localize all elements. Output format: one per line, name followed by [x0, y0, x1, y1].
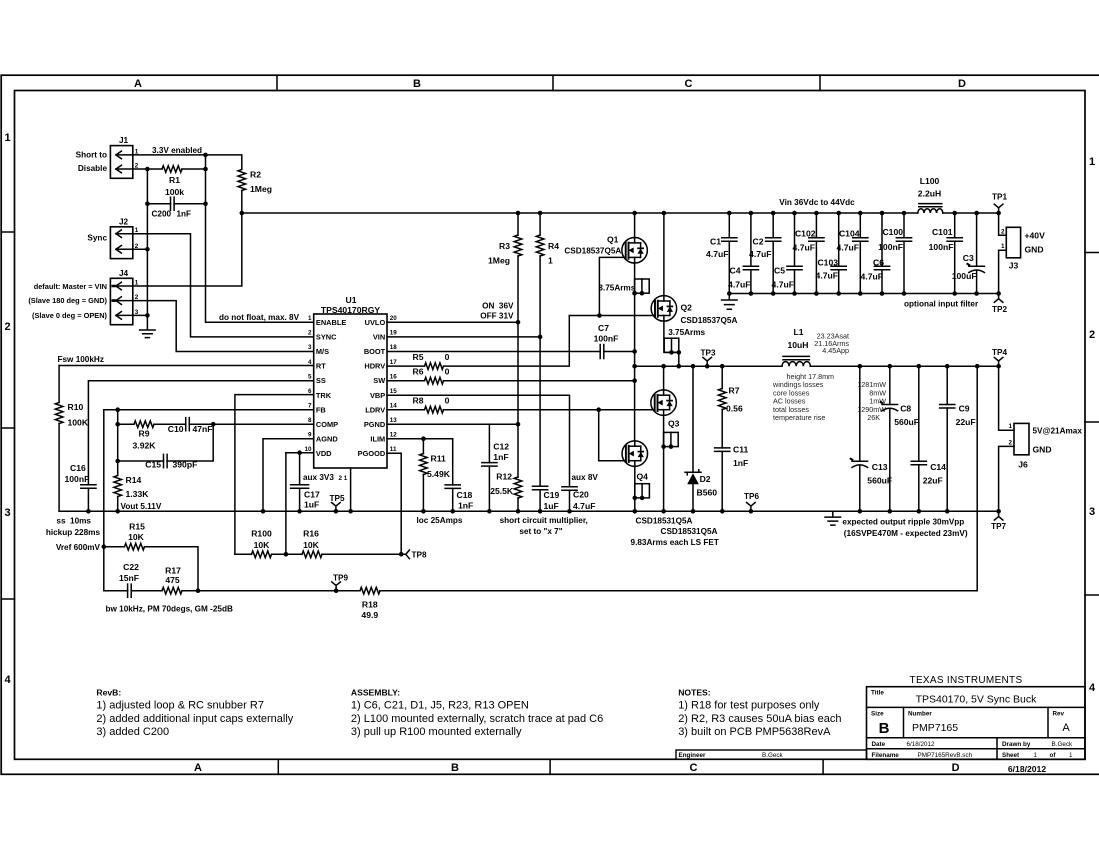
svg-text:Number: Number [908, 710, 932, 717]
svg-text:4.7uF: 4.7uF [749, 249, 771, 259]
svg-text:0: 0 [445, 395, 450, 405]
svg-text:Date: Date [872, 741, 886, 748]
svg-text:optional input filter: optional input filter [904, 300, 979, 309]
svg-text:C200: C200 [152, 210, 172, 219]
svg-text:0.56: 0.56 [726, 404, 743, 414]
svg-text:Vout 5.11V: Vout 5.11V [121, 502, 162, 511]
wire Q1 gate drop [599, 257, 625, 315]
svg-text:C7: C7 [598, 323, 609, 333]
wire R9 left lead [118, 423, 134, 425]
svg-text:TP7: TP7 [991, 522, 1006, 531]
svg-text:4: 4 [4, 674, 11, 686]
svg-text:1: 1 [1001, 243, 1005, 250]
svg-text:C20: C20 [573, 490, 589, 500]
svg-text:2) L100 mounted externally, sc: 2) L100 mounted externally, scratch trac… [351, 713, 603, 725]
svg-text:1: 1 [1069, 752, 1073, 759]
svg-text:ILIM: ILIM [370, 434, 385, 443]
wire C200 right lead [174, 203, 205, 205]
svg-text:10K: 10K [303, 540, 320, 550]
wire R4 top [539, 213, 541, 235]
svg-text:Q4: Q4 [637, 472, 649, 482]
svg-text:3.75Arms: 3.75Arms [668, 328, 705, 337]
capacitor C13 [859, 366, 861, 461]
wire TP9 to R18 [336, 590, 360, 592]
svg-text:C101: C101 [932, 227, 953, 237]
svg-text:1Meg: 1Meg [488, 256, 510, 266]
svg-text:19: 19 [390, 330, 398, 337]
wire RT line [59, 365, 314, 367]
svg-text:C17: C17 [304, 490, 320, 500]
svg-text:9: 9 [308, 432, 312, 439]
test point TP9 [332, 582, 341, 591]
wire J3 pin2 stub [999, 213, 1007, 235]
wire FB line [104, 409, 314, 411]
wire R18 to output riser [380, 366, 977, 591]
svg-text:GND: GND [1025, 245, 1044, 255]
wire R2 bottom to Vin node [241, 191, 243, 214]
capacitor C3 [976, 213, 978, 266]
svg-text:560uF: 560uF [894, 417, 919, 427]
test point TP5 [332, 503, 341, 512]
svg-text:2: 2 [1008, 439, 1012, 446]
capacitor C8 [889, 366, 891, 404]
wire VDD line [286, 452, 314, 454]
svg-text:R100: R100 [251, 529, 272, 539]
output row dots [661, 364, 666, 369]
svg-text:Q2: Q2 [681, 303, 693, 313]
wire R11 top [422, 439, 424, 454]
wire C17 bottom [299, 488, 301, 511]
zone dividers top strip [276, 75, 278, 90]
junction dots lower-mid [102, 544, 107, 549]
svg-text:J3: J3 [1009, 261, 1019, 271]
svg-text:4.45App: 4.45App [822, 346, 849, 355]
capacitor C104 [859, 213, 861, 238]
svg-text:C5: C5 [774, 265, 785, 275]
wire C12 column bottom [488, 466, 490, 511]
wire VBP line [387, 395, 570, 487]
svg-text:26K: 26K [867, 413, 880, 422]
svg-text:Short to: Short to [76, 151, 107, 160]
svg-text:3) built on PCB PMP5638RevA: 3) built on PCB PMP5638RevA [678, 726, 831, 738]
svg-text:2) R2, R3 causes 50uA bias eac: 2) R2, R3 causes 50uA bias each [678, 713, 841, 725]
svg-text:47nF: 47nF [193, 424, 213, 434]
svg-text:NOTES:: NOTES: [678, 688, 711, 698]
svg-text:0: 0 [445, 352, 450, 362]
capacitor C14 [918, 366, 920, 461]
svg-text:11: 11 [390, 446, 397, 453]
svg-text:1nF: 1nF [177, 210, 192, 219]
svg-text:TRK: TRK [316, 391, 332, 400]
svg-text:1nF: 1nF [493, 452, 508, 462]
wire R14 bottom [117, 497, 119, 512]
resistor R2 [238, 170, 246, 191]
connector J1 [110, 146, 132, 179]
svg-text:560uF: 560uF [867, 475, 892, 485]
svg-text:(Slave 0 deg = OPEN): (Slave 0 deg = OPEN) [32, 311, 107, 320]
svg-text:C3: C3 [963, 253, 974, 263]
wire pin21 stub [350, 468, 352, 511]
svg-text:RT: RT [316, 362, 326, 371]
svg-text:20: 20 [390, 315, 398, 322]
ground below J4 [140, 315, 156, 337]
svg-text:TP8: TP8 [412, 550, 427, 559]
wire R12 bottom [517, 498, 519, 511]
wire C200 left lead [147, 203, 170, 205]
svg-text:Rev: Rev [1053, 710, 1065, 717]
wire BOOT line [387, 351, 600, 353]
svg-text:ENABLE: ENABLE [316, 318, 346, 327]
svg-text:2: 2 [4, 321, 10, 333]
svg-text:15: 15 [390, 388, 398, 395]
svg-text:6/18/2012: 6/18/2012 [1008, 764, 1046, 774]
svg-text:C12: C12 [493, 442, 509, 452]
svg-text:VDD: VDD [316, 449, 332, 458]
wire D2 anode wire [692, 484, 694, 511]
wire J1.2 to R1 left [133, 168, 162, 170]
wire J2.2 stub [133, 248, 148, 250]
svg-text:25.5K: 25.5K [490, 486, 514, 496]
wire J4.3 stub [133, 314, 148, 316]
wire LDRV line left [387, 409, 425, 411]
svg-text:5V@21Amax: 5V@21Amax [1033, 427, 1083, 436]
capacitor C6 [881, 213, 883, 266]
svg-text:TPS40170RGY: TPS40170RGY [321, 305, 381, 315]
svg-text:COMP: COMP [316, 420, 338, 429]
resistor R10 [55, 403, 63, 424]
svg-text:expected output ripple 30mVpp: expected output ripple 30mVpp [842, 517, 964, 526]
ground symbol input bank [722, 294, 738, 310]
wire R10 bottom [58, 424, 60, 512]
inductor L1 [782, 362, 810, 367]
svg-text:R11: R11 [431, 454, 447, 464]
svg-text:2: 2 [308, 330, 312, 337]
capacitor C5 [794, 213, 796, 266]
wire C20 bottom [569, 490, 571, 511]
svg-text:hickup 228ms: hickup 228ms [46, 528, 101, 537]
svg-text:Sync: Sync [87, 234, 107, 243]
wire Q1 drain [634, 213, 636, 238]
svg-text:1: 1 [4, 132, 10, 144]
svg-text:16: 16 [390, 373, 398, 380]
wire R1 right to node [182, 168, 206, 170]
svg-text:(Slave 180 deg = GND): (Slave 180 deg = GND) [28, 296, 107, 305]
wire Vin rail [242, 212, 918, 214]
svg-text:C2: C2 [753, 236, 764, 246]
svg-text:4.7uF: 4.7uF [793, 243, 815, 253]
svg-text:Sheet: Sheet [1002, 752, 1020, 759]
capacitor C1 [728, 213, 730, 238]
capacitor C11 [715, 448, 730, 452]
svg-text:HDRV: HDRV [364, 362, 385, 371]
svg-text:0: 0 [445, 367, 450, 377]
connector J4 [110, 278, 132, 324]
svg-text:of: of [1050, 752, 1057, 759]
op-amp U1 TPS40170RGY body [314, 314, 387, 468]
svg-text:bw 10kHz, PM 70degs, GM -25dB: bw 10kHz, PM 70degs, GM -25dB [106, 605, 233, 614]
wire Q4 source [634, 466, 636, 511]
svg-text:13: 13 [390, 417, 398, 424]
svg-text:475: 475 [165, 575, 180, 585]
svg-text:4: 4 [1089, 682, 1096, 694]
svg-text:1nF: 1nF [733, 458, 748, 468]
svg-text:PMP7165RevB.sch: PMP7165RevB.sch [918, 752, 973, 759]
rail junction dots [86, 509, 91, 514]
wire SS line [88, 381, 313, 485]
svg-text:1) R18 for test purposes only: 1) R18 for test purposes only [678, 700, 820, 712]
svg-text:1: 1 [1008, 423, 1012, 430]
svg-text:3) added C200: 3) added C200 [96, 726, 169, 738]
wire C11 bottom [721, 451, 723, 511]
svg-text:C104: C104 [839, 229, 860, 239]
svg-text:PGOOD: PGOOD [358, 449, 386, 458]
capacitor C7 [600, 345, 604, 359]
svg-text:10uH: 10uH [787, 340, 808, 350]
wire C16 bottom [87, 488, 89, 511]
svg-text:J2: J2 [119, 217, 129, 226]
transistor Q4 [622, 441, 648, 467]
svg-text:SYNC: SYNC [316, 332, 337, 341]
svg-text:Disable: Disable [78, 164, 108, 173]
wire R3 top [517, 213, 519, 235]
svg-text:TP5: TP5 [329, 494, 344, 503]
svg-text:CSD18531Q5A: CSD18531Q5A [636, 516, 693, 525]
svg-text:3: 3 [308, 344, 312, 351]
svg-text:100k: 100k [165, 187, 184, 197]
svg-text:B.Geck: B.Geck [1052, 741, 1073, 748]
svg-text:AGND: AGND [316, 434, 338, 443]
wire PGND line [387, 423, 518, 425]
wire main ground rail [59, 510, 999, 512]
svg-text:TP2: TP2 [992, 305, 1007, 314]
wire J4.2 to M/S [133, 301, 314, 352]
svg-text:loc 25Amps: loc 25Amps [417, 516, 463, 525]
svg-text:4.7uF: 4.7uF [728, 279, 750, 289]
svg-text:TP1: TP1 [992, 193, 1007, 202]
svg-text:Vin 36Vdc to 44Vdc: Vin 36Vdc to 44Vdc [779, 198, 855, 207]
wire HDRV to riser [444, 316, 656, 367]
wire ILIM line [387, 438, 453, 440]
svg-text:Drawn by: Drawn by [1002, 741, 1031, 748]
wire Q3 drain [663, 366, 665, 390]
svg-text:R14: R14 [126, 475, 142, 485]
wire TRK row left [235, 553, 252, 555]
svg-text:100K: 100K [68, 417, 89, 427]
wire C15 left lead [118, 460, 164, 462]
svg-text:B: B [879, 720, 890, 737]
svg-text:D: D [958, 78, 966, 90]
wire R7 top [721, 366, 723, 388]
wire PGOOD line [387, 453, 401, 554]
wire C19 bottom [539, 490, 541, 512]
connector J2 [110, 227, 132, 259]
resistor R18 [360, 587, 380, 594]
svg-text:1.33K: 1.33K [126, 489, 150, 499]
svg-text:C: C [690, 762, 698, 774]
svg-text:15nF: 15nF [119, 573, 139, 583]
svg-text:C1: C1 [710, 236, 721, 246]
svg-text:R9: R9 [139, 429, 150, 439]
svg-text:CSD18537Q5A: CSD18537Q5A [564, 246, 621, 255]
wire J1.1 to R2 top node [133, 155, 242, 169]
svg-text:C16: C16 [70, 463, 86, 473]
svg-text:RevB:: RevB: [96, 688, 121, 698]
capacitor C10 [186, 418, 190, 431]
svg-text:FB: FB [316, 405, 326, 414]
svg-text:1: 1 [1034, 752, 1038, 759]
wire C18 bottom [452, 488, 454, 511]
wire SW pin line left [387, 380, 425, 382]
resistor R14 [114, 476, 122, 497]
svg-text:PGND: PGND [364, 420, 386, 429]
svg-text:Q3: Q3 [668, 419, 680, 429]
test point TP4 [994, 357, 1003, 366]
svg-text:C9: C9 [959, 404, 970, 414]
svg-text:C8: C8 [900, 404, 911, 414]
wire C15 right lead [167, 424, 213, 461]
connector J3 [1006, 227, 1020, 257]
capacitor C101 [954, 213, 956, 238]
wire R4 bottom [539, 256, 541, 337]
wire C18 top [452, 439, 454, 485]
wire Vref drop [104, 547, 128, 591]
svg-text:R10: R10 [68, 402, 84, 412]
svg-text:4.7uF: 4.7uF [706, 249, 728, 259]
wire R16 right [322, 553, 401, 555]
svg-text:R8: R8 [413, 395, 424, 405]
input bottom rail dots [727, 291, 732, 296]
svg-text:C10: C10 [168, 424, 184, 434]
capacitor C9 [946, 366, 948, 404]
svg-text:C100: C100 [882, 227, 903, 237]
svg-text:R2: R2 [250, 170, 261, 180]
svg-text:+40V: +40V [1025, 231, 1046, 241]
wire comp net vertical x=117.7 [117, 410, 119, 475]
svg-text:C102: C102 [795, 229, 816, 239]
test point TP6 [747, 503, 756, 512]
wire C12 column top [488, 424, 490, 462]
wire FB drop to Vref [103, 410, 105, 547]
wire J6 pin2 stub [999, 446, 1014, 511]
svg-text:10K: 10K [128, 532, 145, 542]
inductor L100 [918, 209, 943, 213]
svg-text:1: 1 [308, 315, 312, 322]
svg-text:Filename: Filename [872, 752, 900, 759]
svg-text:B: B [413, 78, 421, 90]
connector J6 [1014, 423, 1029, 454]
wire R3 bottom [517, 256, 519, 322]
wire VDD riser [285, 453, 287, 555]
junction dots U1 left [115, 407, 120, 412]
capacitor C102 [815, 213, 817, 238]
svg-text:temperature rise: temperature rise [773, 413, 825, 422]
svg-text:1nF: 1nF [458, 501, 473, 511]
svg-text:A: A [134, 78, 142, 90]
svg-text:1) adjusted loop & RC snubber: 1) adjusted loop & RC snubber R7 [96, 700, 264, 712]
wire R17 right [182, 590, 336, 592]
svg-text:100uF: 100uF [952, 271, 977, 281]
svg-text:1uF: 1uF [304, 500, 319, 510]
svg-text:D: D [952, 762, 960, 774]
svg-text:R16: R16 [303, 529, 319, 539]
svg-text:Fsw 100kHz: Fsw 100kHz [58, 355, 104, 364]
sheet inner border [15, 91, 1086, 760]
wire Q1 source [634, 263, 636, 441]
wire J4.1 to Vin node [133, 213, 242, 286]
resistor R1 [162, 166, 182, 173]
svg-text:4.7uF: 4.7uF [861, 272, 883, 282]
wire C10 right to COMP [189, 423, 313, 425]
output rail dots [858, 509, 863, 514]
wire C22 to R17 [131, 590, 162, 592]
svg-text:3.75Arms: 3.75Arms [598, 284, 635, 293]
svg-text:Q1: Q1 [607, 235, 619, 245]
junction dots U1 right [516, 320, 521, 325]
svg-text:VBP: VBP [370, 391, 385, 400]
svg-text:B560: B560 [697, 488, 718, 498]
svg-text:L100: L100 [920, 176, 940, 186]
svg-text:OFF 31V: OFF 31V [480, 312, 514, 321]
wire R15 right [145, 547, 199, 591]
junction dots top-left [203, 153, 208, 158]
svg-text:2 1: 2 1 [339, 475, 348, 482]
svg-text:49.9: 49.9 [361, 610, 378, 620]
wire Q2 source [664, 321, 679, 352]
svg-text:CSD18531Q5A: CSD18531Q5A [661, 527, 718, 536]
wire J2.1 to SYNC [133, 234, 314, 337]
Q2 package pad [664, 338, 679, 352]
wire AGND line [263, 439, 314, 512]
svg-text:1uF: 1uF [544, 501, 559, 511]
svg-text:R7: R7 [729, 386, 740, 396]
svg-text:9.83Arms each LS FET: 9.83Arms each LS FET [631, 538, 719, 547]
wire LDRV line right [444, 409, 655, 411]
svg-text:J4: J4 [119, 269, 129, 278]
svg-text:12: 12 [390, 432, 398, 439]
wire Vin rail after L100 [943, 212, 999, 214]
wire SW pin line right [444, 380, 635, 382]
wire C19 column [539, 337, 541, 486]
svg-text:Size: Size [871, 710, 884, 717]
svg-text:C18: C18 [457, 490, 473, 500]
test point TP1 [994, 204, 1003, 213]
resistor R16 [302, 551, 322, 558]
svg-text:C22: C22 [123, 562, 139, 572]
wire J6 pin1 stub [999, 366, 1014, 430]
engineer box [676, 750, 867, 759]
Q4 package pad [635, 484, 650, 498]
svg-text:UVLO: UVLO [365, 318, 386, 327]
wire UVLO-R12 vertical [517, 322, 519, 477]
svg-text:SS: SS [316, 376, 326, 385]
test point TP3 [703, 357, 712, 366]
wire C17 top [299, 453, 301, 485]
zone dividers bottom strip [277, 759, 279, 774]
svg-text:short circuit multiplier,: short circuit multiplier, [500, 516, 588, 525]
svg-text:R6: R6 [413, 367, 424, 377]
SW spine dots [632, 291, 637, 296]
svg-text:M/S: M/S [316, 347, 329, 356]
wire output row [810, 365, 998, 367]
svg-text:3: 3 [1089, 506, 1095, 518]
svg-text:3: 3 [4, 507, 10, 519]
svg-text:4.7uF: 4.7uF [837, 243, 859, 253]
capacitor C103 [838, 213, 840, 266]
wire VIN line [387, 336, 540, 338]
capacitor C20 [562, 487, 577, 491]
wire R100-R16 mid [272, 553, 303, 555]
wire Q2 drain [663, 213, 665, 296]
